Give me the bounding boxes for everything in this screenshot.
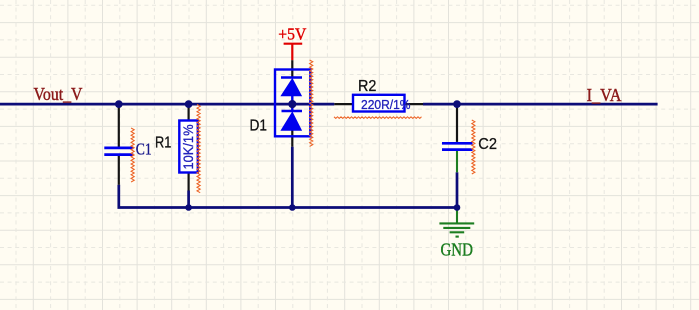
svg-text:I_VA: I_VA bbox=[587, 85, 622, 105]
power port GND symbol bbox=[439, 208, 474, 237]
capacitor C2 plates bbox=[442, 143, 473, 149]
error squiggle near C2 bbox=[472, 120, 475, 174]
capacitor C2 top pin bbox=[456, 104, 458, 142]
svg-text:R1: R1 bbox=[155, 135, 171, 152]
svg-text:D1: D1 bbox=[250, 118, 268, 135]
svg-text:C2: C2 bbox=[478, 136, 497, 153]
power port +5V bbox=[284, 44, 303, 61]
junction at R1 top node bbox=[185, 100, 193, 108]
diode D1 bottom pin bbox=[291, 130, 293, 147]
resistor R2 pins bbox=[334, 103, 423, 105]
diode D1 bottom diode bbox=[281, 105, 302, 130]
svg-text:+5V: +5V bbox=[278, 24, 306, 43]
resistor R1 pins bbox=[188, 104, 190, 190]
wire: D1 bottom stub bbox=[291, 147, 294, 208]
error squiggle near R1 bbox=[197, 105, 200, 193]
wire: net from R2 to I_VA bbox=[423, 103, 658, 106]
resistor R2 body bbox=[353, 95, 405, 112]
svg-text:220R/1%: 220R/1% bbox=[361, 97, 411, 112]
svg-text:C1: C1 bbox=[136, 140, 152, 159]
junction at C1 top node bbox=[115, 100, 123, 108]
error squiggle under R2 bbox=[334, 117, 422, 119]
svg-text:Vout_V: Vout_V bbox=[34, 84, 83, 104]
error squiggle near D1 bbox=[310, 60, 313, 146]
wire: C2 bottom stub bbox=[456, 172, 459, 207]
junction at D1 mid node bbox=[288, 100, 296, 108]
diode D1 top pin bbox=[291, 60, 293, 77]
diode D1 box outline bbox=[275, 70, 310, 137]
capacitor C1 plates bbox=[104, 148, 133, 155]
junction at R1 bottom node bbox=[185, 204, 192, 211]
wire: main net from Vout_V to R2 bbox=[0, 103, 334, 106]
wire: R1 bottom stub bbox=[187, 191, 190, 208]
junction at D1 bottom node bbox=[289, 204, 296, 211]
wire: bottom return net bbox=[119, 185, 457, 208]
svg-text:GND: GND bbox=[441, 240, 473, 260]
error squiggle near C1 bbox=[131, 128, 134, 182]
junction at C2 top node bbox=[453, 100, 461, 108]
capacitor C1 pins bbox=[118, 104, 120, 185]
resistor R1 body bbox=[179, 121, 198, 173]
svg-text:R2: R2 bbox=[358, 78, 376, 95]
diode D1 top diode bbox=[281, 78, 302, 104]
capacitor C2 green pin bbox=[456, 151, 458, 172]
junction at GND node bbox=[454, 204, 461, 211]
svg-text:10K/1%: 10K/1% bbox=[181, 125, 196, 170]
